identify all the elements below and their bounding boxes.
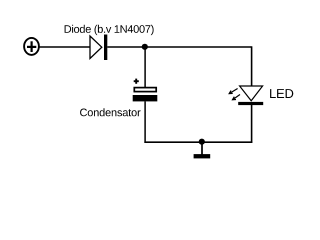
- wire corner down to LED: [251, 46, 253, 86]
- battery positive terminal: [24, 38, 39, 55]
- capacitor C1: [133, 88, 158, 102]
- capacitor polarity +: [134, 79, 139, 84]
- wire to ground: [201, 142, 203, 155]
- diode D1: [90, 35, 107, 61]
- wire battery to diode: [39, 46, 90, 48]
- label Diode (b.v 1N4007): [65, 25, 154, 35]
- wire down to capacitor: [144, 47, 146, 87]
- LED D2: [238, 86, 263, 105]
- label Condensator: [80, 108, 140, 116]
- label LED: [270, 89, 293, 98]
- wire capacitor to bottom wire: [144, 101, 146, 142]
- bottom wire: [144, 141, 252, 143]
- LED light arrows: [229, 89, 240, 100]
- junction node (bottom): [199, 139, 205, 145]
- wire diode to LED corner: [107, 46, 251, 48]
- ground: [194, 154, 211, 158]
- wire LED to bottom wire: [251, 105, 253, 143]
- junction node (top): [142, 44, 148, 50]
